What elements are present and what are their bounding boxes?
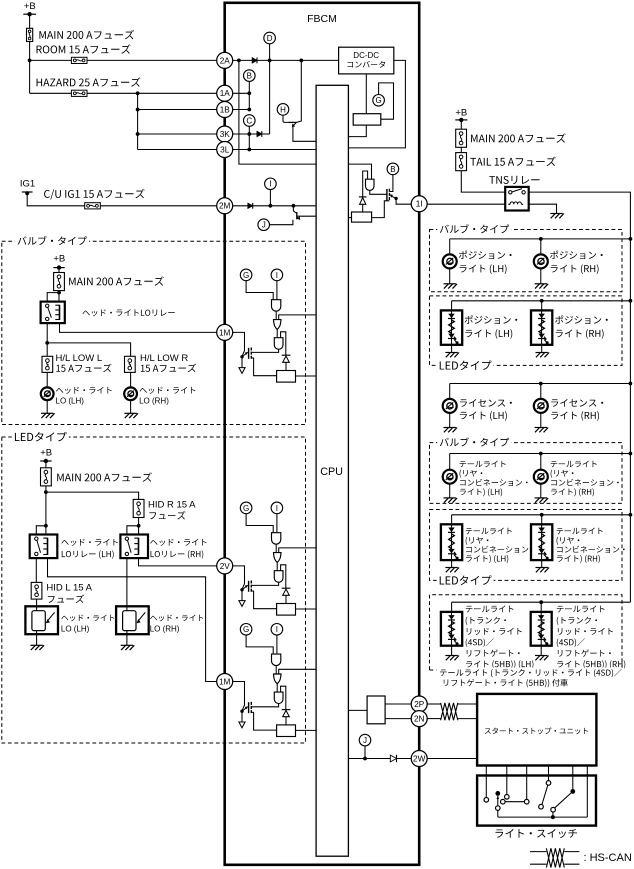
LED position light RH [531,310,552,344]
node feed RH [539,600,543,604]
LED tail light LH [441,524,462,560]
HS-CAN legend symbol [530,852,546,865]
wire license feed [450,383,631,385]
wire CPU to CAN connector [348,709,367,711]
wire down to HAZARD line [29,60,31,93]
logic gate U-a (AND) [272,300,281,311]
svg-text:3K: 3K [220,130,231,139]
wire MAIN to TAIL fuse [460,147,462,152]
wire bulb LH to ground [449,268,451,283]
svg-text:H/L LOW L: H/L LOW L [56,353,103,364]
node feed RH [540,299,544,303]
logic gate U-b (OR, chevron) [274,674,282,684]
wire LED tail feed [452,514,631,516]
node G (circled) [240,502,252,514]
wire C to 3K/3L [248,126,250,149]
wire D to 2A line [269,44,271,61]
diode (clamp) [282,355,291,362]
wire 3K line interior [233,133,257,135]
pin circle 2A [217,52,233,68]
node B (circled) [244,70,256,82]
bulb license light RH [534,399,548,413]
node 2A-c [299,59,303,63]
wire unit to switch 2 [506,766,508,795]
bottom rail [498,816,588,818]
svg-text:I: I [269,180,271,189]
label bulb-type [437,223,511,235]
label TNS relay [489,176,539,184]
ground (LED position RH) [536,353,550,358]
resistor (sense) [277,725,296,737]
wire LH switch to HID L fuse [35,558,37,582]
svg-text:2P: 2P [414,700,425,709]
wire D-bus down to 3K diode [269,60,271,134]
supply arrow (open triangle) [239,368,245,374]
pin circle 1B [217,102,233,118]
node 3K branch [136,132,140,136]
wire tail RH to ground [540,484,542,498]
wire pin 1I to TNS relay coil [427,203,505,205]
node feed bus [629,452,633,456]
zener diode ZD1 [359,197,367,204]
LED headlight unit LH [25,606,58,634]
label start-stop unit [485,727,588,734]
wire bulb RH to ground [540,268,542,283]
node 2A-b [268,59,272,63]
label LED position RH [555,315,608,324]
contact below pivot [496,806,501,811]
fuse MAIN 200A (top left) [27,28,33,41]
svg-text:FBCM: FBCM [307,13,337,25]
dashed box LED-type (tail lights) [430,510,623,581]
wire tail LH to ground [449,484,451,498]
wire G to gate input [246,514,273,533]
diode (clamp) [282,588,291,595]
fuse HID L 15A [31,582,42,599]
node I (circled) [271,502,283,514]
wire chevron out [276,562,278,570]
label LED position LH [465,315,518,324]
light switch box [477,776,596,826]
wire LED LH to ground [451,345,453,353]
wire TAIL fuse to TNS relay [461,171,505,192]
wire unit to switch 1 [485,766,487,798]
pin circle 2P [411,696,427,712]
wire fuse to relay node [58,291,60,302]
wire +B to MAIN fuse [45,461,47,468]
node G (circled) [240,269,252,281]
svg-text:+B: +B [24,1,36,12]
ground (license LH) [444,428,458,433]
wire B to 1A/1B [248,81,250,109]
wire LED tail LH to ground [451,560,453,567]
wire I to gate input [276,635,278,654]
wire 4SD feed [452,601,631,603]
fuse MAIN 200A (right) [456,129,467,147]
wire gate-c out to MOSFET [252,349,279,352]
MOSFET M4 (1I output) [387,189,398,201]
wire twisted pair to unit (hi) [458,703,477,705]
contact A [539,804,544,809]
LED tail light (trunk/liftgate) LH [441,612,462,646]
dashed box LED-type (position lights) [430,296,623,366]
wire unit to switch 6 (return) [586,766,588,818]
twisted pair (HS-CAN) [441,703,458,720]
LED position light LH [441,310,462,344]
svg-text:HID R 15 A: HID R 15 A [148,500,196,511]
wire pin lead [233,332,245,356]
svg-text:1I: 1I [416,200,423,209]
dashed box LED-type (headlights) [2,437,306,743]
wire CPU to 1I gate input [348,164,371,179]
pin circle 3K [217,126,233,142]
label headlight LO relay [83,309,175,316]
node LH relay feed [44,524,48,528]
wire HID R fuse to relay [138,518,140,535]
diode on 2M line [248,203,253,209]
node rail [551,815,555,819]
ground (LED headlight RH) [121,645,135,650]
MOSFET (high-side driver) [240,581,251,592]
supply arrow (open triangle) [239,722,245,728]
ground (4SD RH) [535,656,549,661]
node HID R branch [44,490,48,494]
pin circle 1M [217,324,233,340]
svg-text:I: I [276,504,278,513]
label license LH [460,399,512,407]
pin circle 2W [411,751,427,767]
label 4SD RH [557,605,605,612]
wire unit to switch 3 [526,766,528,800]
wire 2N to twisted pair [427,718,440,720]
svg-text:LO (RH): LO (RH) [150,625,180,634]
dashed box bulb-type (headlights) [2,241,306,424]
node 2W-J junction [363,757,367,761]
wire 1A line interior [233,92,250,94]
bulb headlight LO LH [41,387,54,400]
label MAIN fuse [69,276,164,285]
pin circle 2M [217,198,233,214]
wire CPU to pin 2W [348,758,411,760]
wire to tail bulb RH [540,454,542,470]
ground (TNS relay) [550,214,564,219]
node 2A-a [237,59,241,63]
wire to LED unit RH [541,301,543,311]
wire I to gate input [276,514,278,533]
label headlight LO LH [56,387,112,394]
wire fuse down to relays [45,486,47,535]
label 4SD LH [466,605,514,612]
wire bulb to ground [130,400,132,413]
regulator box [353,114,381,125]
transistor Q1 (H driver) [283,115,288,122]
wire diode to resistor [285,717,287,725]
ground (position LH) [444,284,458,289]
node feed RH [540,513,544,517]
svg-text:J: J [262,221,266,230]
node H (circled) [277,104,289,116]
wire to CPU (gate tap) [279,315,316,320]
label MAIN fuse [57,472,152,481]
wire 2M line to CPU [233,205,316,207]
svg-text:IG1: IG1 [20,178,35,189]
lever vertical [497,796,499,806]
wire to pin 3K [138,133,217,135]
fuse HAZARD 25A [71,90,87,96]
svg-text:C: C [246,116,252,125]
svg-text:2N: 2N [414,715,425,724]
contact 1 [484,798,489,803]
LED tail light RH [531,524,552,560]
fuse MAIN 200A (bulb headlights) [54,273,65,291]
pin circle 1I [411,196,427,212]
pin circle 3L [217,142,233,158]
wire DC-DC out right to CPU [348,60,405,147]
switch lever B [555,793,571,808]
ground (tail LH) [444,498,458,503]
fuse H/L LOW L 15A [42,356,53,372]
wire to bulb LH [449,239,451,255]
wire to LED tail LH [451,515,453,525]
wire 1B line interior [233,109,250,111]
svg-text:1A: 1A [220,89,231,98]
wire Q2 to CPU [297,215,316,217]
svg-text:LO (LH): LO (LH) [61,625,90,634]
wire to pin 3L [138,149,217,151]
MOSFET (high-side driver) [240,702,251,713]
wire diode to resistor [285,595,287,603]
wire gate left input loop to zener [363,171,368,197]
wire unit to switch 4 [548,766,550,781]
wire stubs inside LED unit RH [126,606,128,634]
wire pin lead [233,682,245,711]
wire J to 2W line [364,746,366,759]
wire MOSFET source to resistor [251,591,276,609]
wire box to pin 2N [385,718,411,720]
wire pin lead [233,566,245,589]
label light switch [495,829,577,838]
TNS relay [505,187,529,211]
label headlight LO RH [140,387,196,394]
wire to license RH [540,384,542,400]
dashed box tail (trunk-lid / liftgate) [430,595,623,670]
svg-text:HID L 15 A: HID L 15 A [46,583,92,594]
wire gate-c right input jog [281,686,286,709]
wire branch bus down [137,93,139,149]
wire gate out [275,666,277,675]
label tail LH [460,461,506,468]
node D (circled) [264,32,276,44]
node 2M-a [269,204,273,208]
ground (headlight RH) [124,413,138,418]
wire MOSFET to pin 1I [396,198,411,204]
dashed box bulb-type (position lights) [430,230,623,292]
logic gate U-a (AND) [272,654,281,665]
wire resistor to CPU [296,608,317,610]
relay headlight LO LH [30,535,58,559]
svg-text:J: J [363,736,367,745]
wire to LED tail RH [541,515,543,525]
label LED tail RH [557,528,603,535]
wire LED RH to ground [541,345,543,353]
wire branch to HID R fuse [46,492,139,499]
node RH relay feed [137,524,141,528]
label TAIL fuse [470,157,555,166]
wire gate-c out to MOSFET [252,704,279,707]
ground (LED tail LH) [445,568,459,573]
svg-text:LO (LH): LO (LH) [56,396,85,405]
wire to tail bulb LH [449,454,451,470]
wire TNS switch out to tail bus [529,192,631,602]
ground (LED tail RH) [536,568,550,573]
label position LH [459,251,512,260]
pin circle 1A [217,85,233,101]
svg-text:3L: 3L [220,145,230,154]
svg-text:2A: 2A [220,56,231,65]
node 1B-B junction [247,108,251,112]
ground (4SD LH) [445,656,459,661]
wire jog to LH relay switch [36,526,46,535]
svg-text:B: B [247,72,252,81]
diode on 2A line [252,58,257,64]
label LED-type [437,359,494,373]
logic gate U-a (AND) [272,533,281,544]
svg-text:G: G [375,96,381,105]
node feed bus [629,382,633,386]
resistor R2 [352,212,372,222]
ground (position RH) [535,284,549,289]
node 3K-a [247,132,251,136]
node C (circled) [244,115,256,127]
wire gate-c right input jog [281,565,286,588]
wire relay switch out [46,323,48,356]
wire TNS coil to ground [529,204,557,213]
wire resistor to CPU [296,729,317,731]
node 3L-C junction [247,148,251,152]
relay headlight LO RH [120,535,148,559]
wire +B to MAIN fuse [29,14,31,28]
wire chevron out [276,684,278,692]
svg-text:I: I [276,271,278,280]
bulb position light LH [443,254,457,268]
logic gate U-b (OR, chevron) [274,320,282,330]
node I (circled) [271,269,283,281]
label license RH [551,399,603,407]
label LO relay RH [150,539,206,546]
wire to pin 1B [138,109,217,111]
LED headlight unit RH [116,606,149,634]
wire rail to lever B [552,812,554,817]
label MAIN 200A fuse [39,30,134,39]
label HAZARD fuse [37,77,141,86]
node J (circled, 2W) [359,734,371,746]
label LED-type headlights [12,430,69,444]
ground (LED position LH) [445,353,459,358]
wire resistor to MOSFET source [372,201,390,218]
wire zener to resistor [362,204,364,212]
fuse MAIN 200A (LED headlights) [41,468,52,486]
resistor (sense) [277,604,296,616]
supply arrow (open triangle) [239,601,245,607]
wire R fuse to bulb [130,372,132,387]
svg-text:1M: 1M [219,328,231,337]
wire to license LH [449,384,451,400]
wire jog to relay switch [47,293,59,302]
label C/U IG1 fuse [44,189,145,200]
wire HID L fuse to LED unit [36,599,38,606]
wire jog to RH relay switch [127,526,139,535]
svg-text:+B: +B [40,447,52,458]
node feed RH [539,237,543,241]
resistor (sense) [277,371,296,383]
node ROOM junction [28,59,32,63]
label position RH [550,251,603,260]
wire relay coil to pin 1M [60,323,217,332]
svg-text:2W: 2W [413,754,426,763]
wire G to gate input [246,281,273,300]
bulb tail light RH [534,470,548,484]
wire HAZARD feed to pin 1A [30,92,217,94]
node B (circled, 1I) [387,163,399,175]
wire 3K diode to D-bus [263,133,270,135]
ground (license RH) [535,428,549,433]
wire Q1 emitter to CPU [293,126,316,141]
svg-text:I: I [276,625,278,634]
wire chevron out [276,329,278,337]
wire 4SD LH to ground [451,646,453,656]
wire twisted pair to unit (lo) [458,718,477,720]
svg-text:: HS-CAN: : HS-CAN [584,852,632,864]
node G (circled, top) [373,95,385,107]
diode on 3K line [257,131,262,137]
label LO relay LH [61,539,117,546]
pivot 5 (closed) [570,789,575,794]
label MAIN fuse right [471,133,566,142]
wire MOSFET body to supply arrow [241,357,243,368]
pin circle 2N [411,711,427,727]
node feed bus [629,513,633,517]
LED tail light (trunk/liftgate) RH [531,612,552,646]
wire gate-c right input jog [281,332,286,355]
fuse HID R 15A [133,499,144,517]
diode (clamp) [282,710,291,717]
bulb tail light LH [443,470,457,484]
svg-text:G: G [243,625,249,634]
logic gate U-c (AND) [274,571,283,583]
node feed bus [629,299,633,303]
node 2M-b [292,204,296,208]
svg-text:H: H [280,105,286,114]
dashed box bulb-type (tail lights) [430,443,623,504]
svg-text:G: G [243,271,249,280]
wire I to gate input [276,281,278,300]
wire 2W to start-stop unit [427,758,477,760]
svg-text:+B: +B [455,107,467,118]
wire J to transistor base [270,220,293,225]
bulb license light LH [443,399,457,413]
ground (headlight LH) [41,413,55,418]
pivot dot (left lever) [495,791,500,796]
wire +B to MAIN fuse [58,268,60,273]
wire gate out [275,311,277,320]
node I (circled, 2M) [265,178,277,190]
wire 2A branch to CPU [239,60,316,164]
wire gate-c out to MOSFET [252,582,279,585]
node 1A-B junction [247,91,251,95]
wire G to gate input [246,635,273,654]
contact B [551,807,556,812]
wire to 4SD LED LH [451,602,453,612]
